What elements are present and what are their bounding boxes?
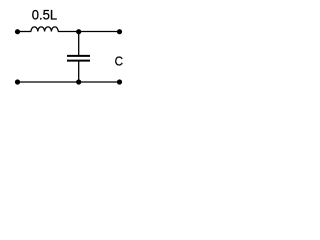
value label C [115, 54, 123, 69]
inductor L1 coil [31, 27, 58, 32]
wire top-left segment [18, 31, 32, 33]
junction top of capacitor [76, 29, 81, 34]
wire capacitor bottom stem [78, 62, 80, 83]
svg-text:C: C [115, 54, 123, 69]
wire capacitor top stem [78, 32, 80, 56]
node top-left terminal [15, 29, 20, 34]
junction bottom of capacitor [76, 79, 81, 84]
node bottom-right terminal [117, 79, 122, 84]
node top-right terminal [117, 29, 122, 34]
value label 0.5L [32, 7, 58, 23]
wire top-right segment [58, 31, 120, 33]
capacitor C bottom plate [67, 60, 90, 62]
node bottom-left terminal [15, 79, 20, 84]
capacitor C top plate [67, 55, 90, 57]
svg-text:0.5L: 0.5L [32, 7, 58, 23]
wire bottom [18, 81, 120, 83]
